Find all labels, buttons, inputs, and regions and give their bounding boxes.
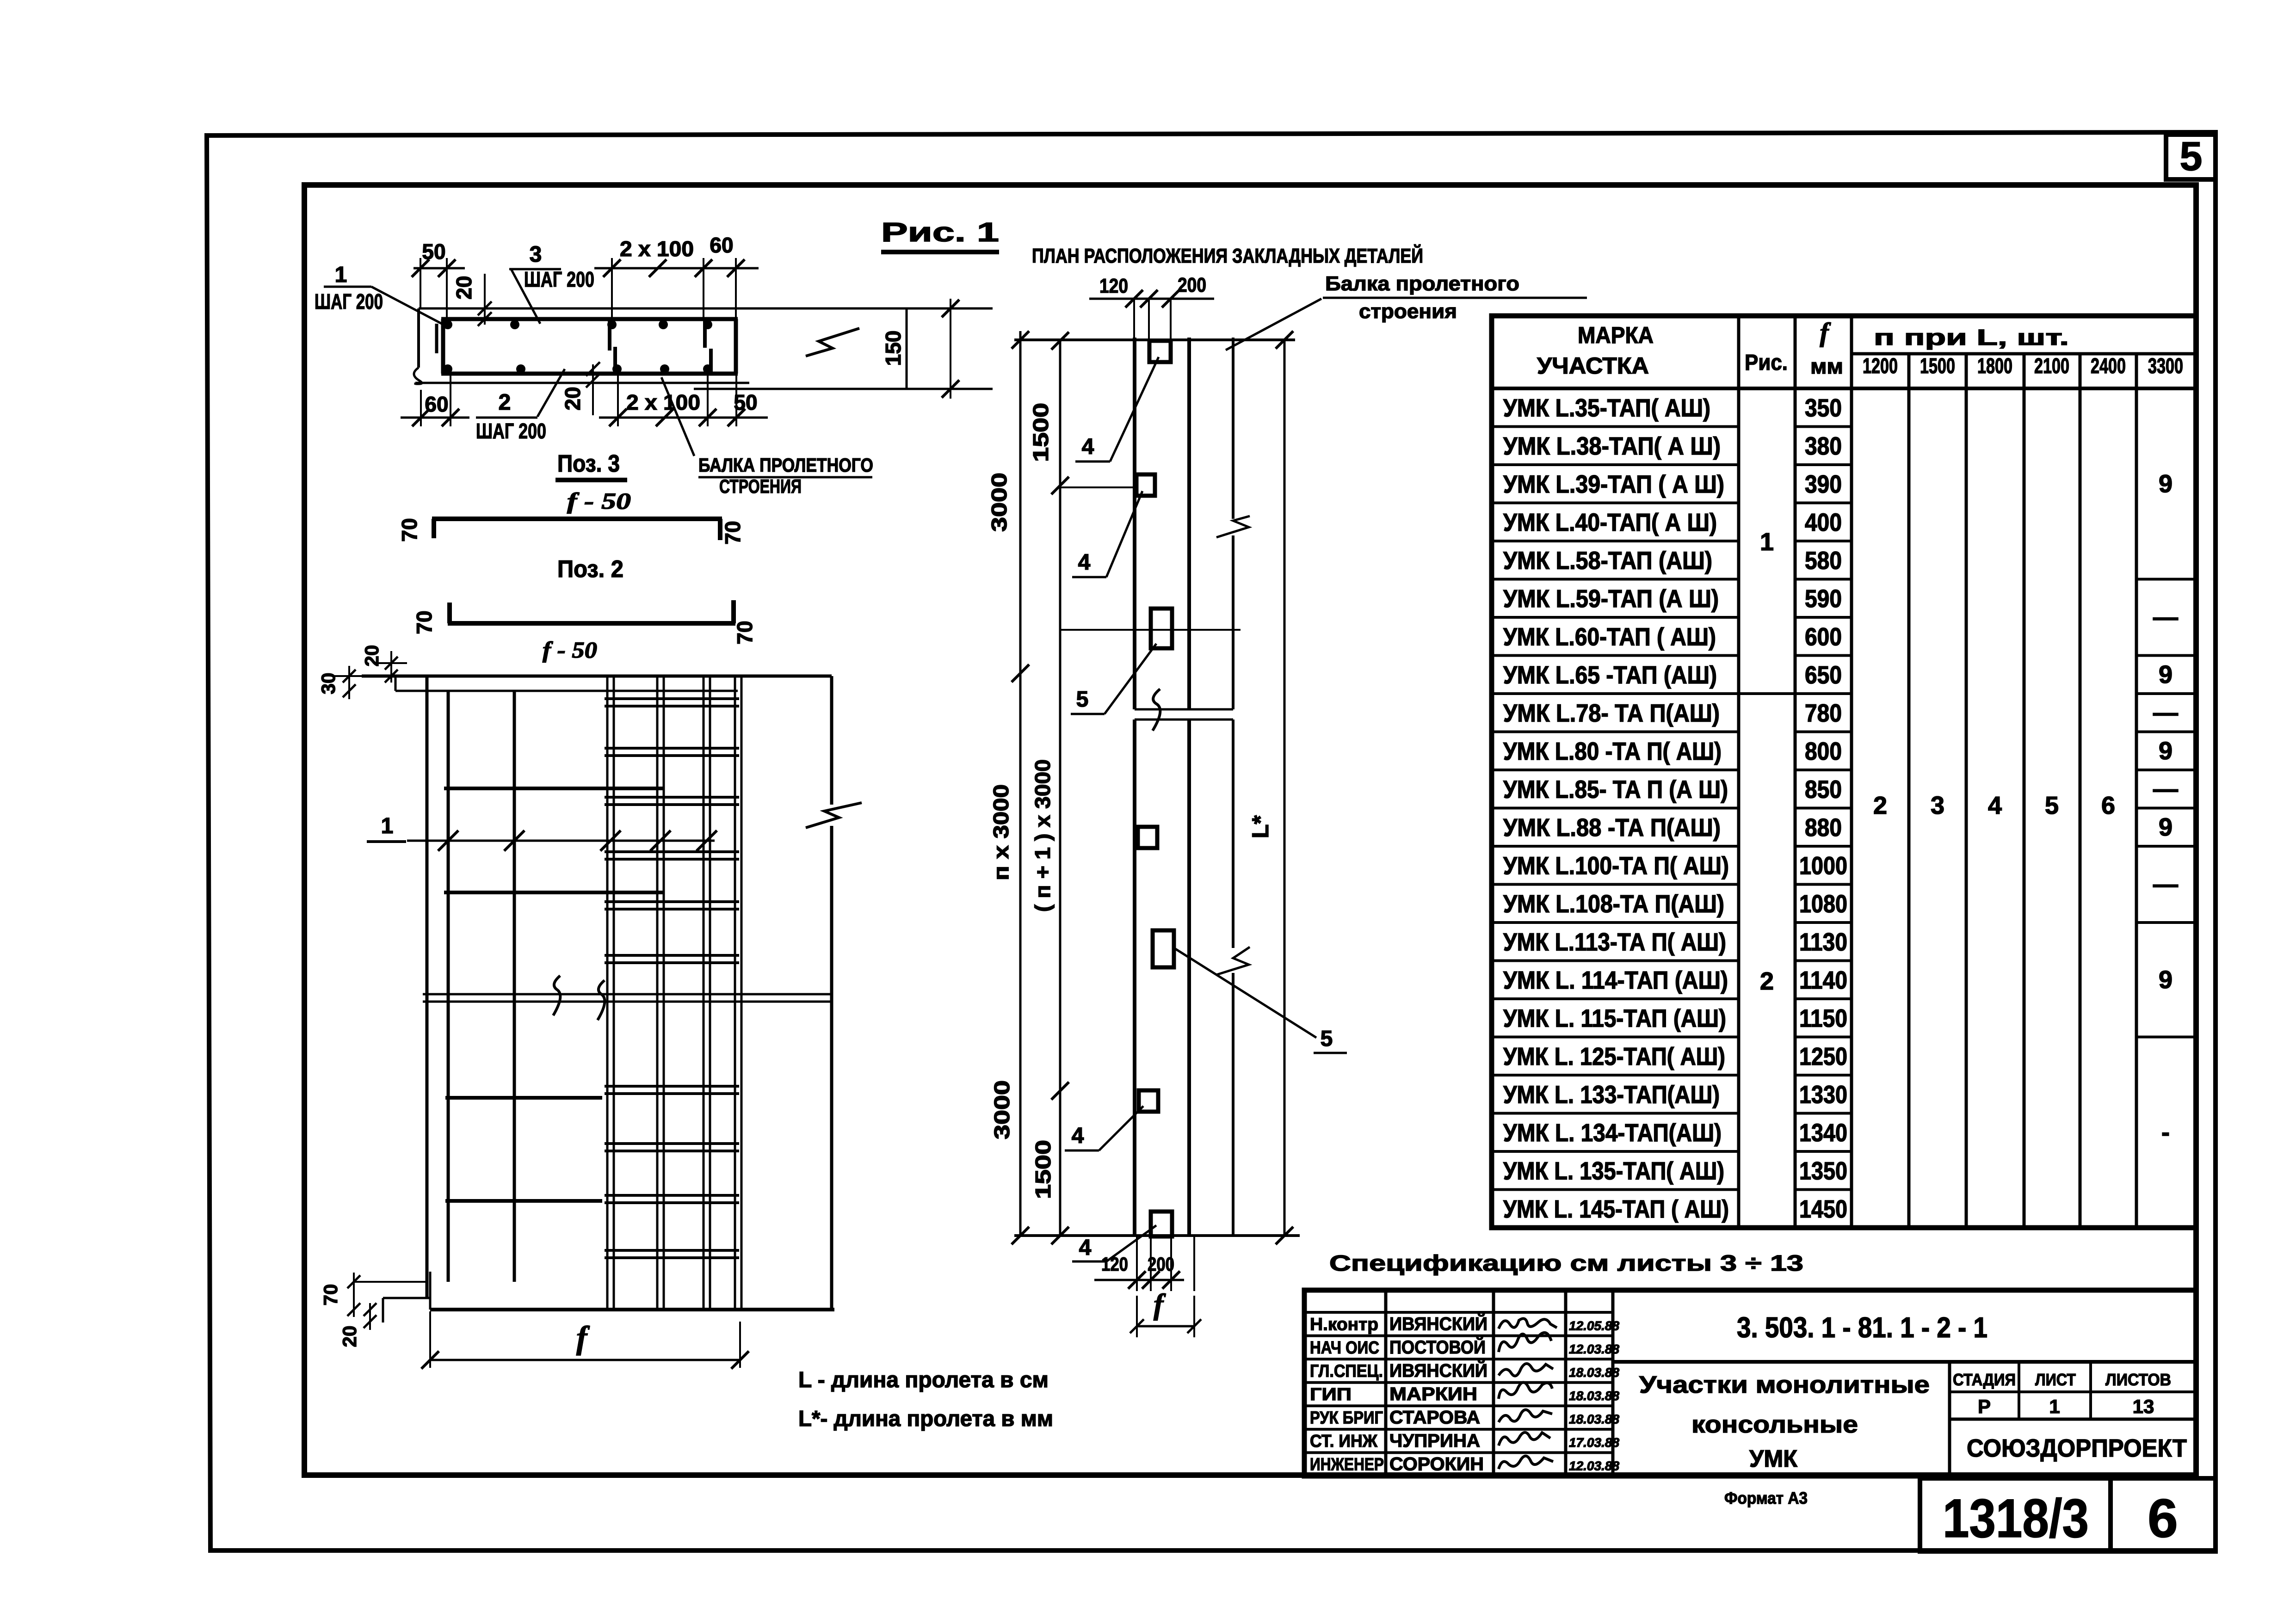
svg-text:Поз. 3: Поз. 3 <box>557 450 620 477</box>
svg-text:УМК L.108-ТА П(АШ): УМК L.108-ТА П(АШ) <box>1503 890 1724 918</box>
svg-text:4: 4 <box>1079 1236 1092 1260</box>
svg-text:380: 380 <box>1805 432 1842 460</box>
svg-text:2400: 2400 <box>2091 354 2126 378</box>
svg-text:УМК L. 134-ТАП(АШ): УМК L. 134-ТАП(АШ) <box>1503 1119 1722 1147</box>
stirrup cage top bar <box>441 317 738 321</box>
svg-text:ИВЯНСКИЙ: ИВЯНСКИЙ <box>1389 1313 1487 1334</box>
svg-text:2: 2 <box>1760 967 1774 995</box>
svg-text:150: 150 <box>881 331 905 366</box>
svg-text:5: 5 <box>1076 687 1089 712</box>
svg-text:20: 20 <box>339 1326 360 1347</box>
mesh long horizontal bars upper <box>444 787 664 790</box>
svg-text:4: 4 <box>1072 1124 1084 1148</box>
plan top edge <box>1014 338 1295 341</box>
mesh vertical bars dense group (doubled) <box>606 676 609 1310</box>
svg-text:50: 50 <box>734 390 757 414</box>
dim line B <box>1059 341 1062 1236</box>
title block signature rows <box>1304 1311 1613 1314</box>
svg-text:УМК L. 115-ТАП (АШ): УМК L. 115-ТАП (АШ) <box>1503 1004 1726 1032</box>
mesh right edge with break <box>830 676 833 805</box>
svg-text:4: 4 <box>1082 435 1094 459</box>
mesh vertical bars left group <box>426 676 429 1298</box>
20 dim left <box>390 651 392 683</box>
svg-text:п при L, шт.: п при L, шт. <box>1874 326 2069 350</box>
top 20 dim <box>484 274 486 325</box>
svg-text:5: 5 <box>2045 792 2059 819</box>
svg-text:ШАГ 200: ШАГ 200 <box>315 289 383 314</box>
svg-text:Р: Р <box>1978 1396 1991 1417</box>
svg-text:18.03.88: 18.03.88 <box>1569 1412 1619 1427</box>
svg-text:мм: мм <box>1810 354 1843 378</box>
f dim bottom plan <box>1136 1296 1138 1337</box>
svg-text:600: 600 <box>1805 623 1842 651</box>
svg-text:Рис. 1: Рис. 1 <box>881 217 999 247</box>
svg-text:1450: 1450 <box>1799 1195 1847 1223</box>
svg-text:60: 60 <box>425 392 448 416</box>
section break lines mid plan <box>1135 708 1233 711</box>
svg-text:-: - <box>2161 1119 2170 1146</box>
svg-text:200: 200 <box>1148 1253 1174 1275</box>
f dim bottom <box>429 1311 431 1368</box>
L* dim line <box>1284 340 1286 1236</box>
svg-text:ШАГ 200: ШАГ 200 <box>524 267 594 291</box>
svg-text:70: 70 <box>721 521 745 544</box>
svg-text:УМК L. 133-ТАП(АШ): УМК L. 133-ТАП(АШ) <box>1503 1081 1720 1108</box>
svg-text:18.03.88: 18.03.88 <box>1569 1389 1619 1403</box>
svg-text:строения: строения <box>1359 300 1457 323</box>
title name cell <box>1948 1362 1951 1476</box>
svg-text:20: 20 <box>361 645 383 667</box>
svg-text:1080: 1080 <box>1799 890 1847 918</box>
svg-text:880: 880 <box>1805 814 1842 842</box>
embedded plate 2 <box>1136 474 1155 496</box>
svg-text:3000: 3000 <box>990 1080 1014 1139</box>
Поз.2 bent bar <box>448 621 735 626</box>
svg-text:12.05.88: 12.05.88 <box>1569 1318 1619 1333</box>
svg-text:РУК БРИГ: РУК БРИГ <box>1310 1409 1383 1428</box>
svg-text:1500: 1500 <box>1029 403 1053 462</box>
svg-text:1: 1 <box>335 263 347 287</box>
svg-text:5: 5 <box>1321 1027 1333 1051</box>
beam break symbol <box>806 328 859 356</box>
beam left edge <box>1133 338 1136 709</box>
sheet number box 5 <box>2166 135 2216 179</box>
svg-text:9: 9 <box>2159 661 2173 689</box>
svg-text:—: — <box>2153 603 2178 631</box>
embedded plate 1 <box>1149 341 1171 362</box>
svg-text:СОРОКИН: СОРОКИН <box>1389 1454 1484 1475</box>
svg-text:УМК L.113-ТА П( АШ): УМК L.113-ТА П( АШ) <box>1503 928 1726 956</box>
svg-text:3: 3 <box>530 242 542 267</box>
svg-text:L*: L* <box>1247 815 1273 838</box>
svg-text:ГИП: ГИП <box>1310 1385 1352 1404</box>
rebar dots bottom row <box>443 364 452 374</box>
svg-text:МАРКА: МАРКА <box>1578 322 1654 348</box>
svg-text:НАЧ ОИС: НАЧ ОИС <box>1310 1338 1379 1358</box>
svg-text:СТ. ИНЖ: СТ. ИНЖ <box>1310 1432 1378 1451</box>
svg-text:12.03.88: 12.03.88 <box>1569 1342 1619 1356</box>
svg-text:—: — <box>2153 699 2178 726</box>
svg-text:850: 850 <box>1805 775 1842 803</box>
svg-text:350: 350 <box>1805 394 1842 422</box>
svg-text:5: 5 <box>2180 133 2203 179</box>
svg-text:2 x 100: 2 x 100 <box>620 237 694 261</box>
inner frame <box>304 185 2196 1475</box>
svg-text:4: 4 <box>1988 792 2002 819</box>
svg-text:БАЛКА ПРОЛЕТНОГО: БАЛКА ПРОЛЕТНОГО <box>698 454 873 476</box>
svg-text:Балка пролетного: Балка пролетного <box>1325 272 1519 295</box>
svg-text:12.03.88: 12.03.88 <box>1569 1459 1619 1473</box>
svg-text:70: 70 <box>733 621 757 644</box>
svg-text:1318/3: 1318/3 <box>1943 1488 2089 1549</box>
svg-text:СТАРОВА: СТАРОВА <box>1389 1408 1480 1428</box>
svg-text:1000: 1000 <box>1799 852 1847 880</box>
svg-text:ЛИСТОВ: ЛИСТОВ <box>2105 1370 2171 1389</box>
svg-text:1150: 1150 <box>1799 1004 1847 1032</box>
beam outer edge with breaks <box>1232 338 1234 519</box>
svg-text:13: 13 <box>2133 1396 2154 1417</box>
svg-text:п x 3000: п x 3000 <box>989 784 1013 880</box>
outer border <box>207 132 2216 1550</box>
svg-text:50: 50 <box>422 240 445 264</box>
mesh top edge <box>362 675 832 678</box>
svg-text:4: 4 <box>1078 550 1091 575</box>
svg-text:2 x 100: 2 x 100 <box>626 390 700 414</box>
svg-text:L - длина пролета в см: L - длина пролета в см <box>798 1368 1049 1392</box>
svg-text:Формат А3: Формат А3 <box>1724 1489 1808 1507</box>
svg-text:( п + 1 ) x 3000: ( п + 1 ) x 3000 <box>1031 759 1055 912</box>
svg-text:3: 3 <box>1931 792 1944 819</box>
cage left hook <box>435 324 438 353</box>
svg-text:УМК L.88 -ТА П(АШ): УМК L.88 -ТА П(АШ) <box>1503 814 1721 842</box>
mesh top-left step <box>395 676 397 691</box>
svg-text:консольные: консольные <box>1691 1411 1858 1438</box>
svg-text:Участки монолитные: Участки монолитные <box>1639 1372 1930 1398</box>
table header lines <box>1852 352 2196 356</box>
svg-text:1350: 1350 <box>1799 1157 1847 1185</box>
svg-text:3000: 3000 <box>987 473 1011 532</box>
svg-text:800: 800 <box>1805 738 1842 765</box>
svg-text:УМК L.85- ТА П (А Ш): УМК L.85- ТА П (А Ш) <box>1503 775 1728 803</box>
svg-text:f - 50: f - 50 <box>567 488 631 514</box>
svg-text:17.03.88: 17.03.88 <box>1569 1435 1619 1450</box>
doc number cell <box>1613 1360 2196 1364</box>
svg-text:Спецификацию см листы 3 ÷ 1: Спецификацию см листы 3 ÷ 13 <box>1329 1251 1803 1276</box>
svg-text:УМК L. 135-ТАП( АШ): УМК L. 135-ТАП( АШ) <box>1503 1157 1724 1185</box>
dim line A <box>1019 331 1022 1236</box>
beam cross-section slab outline <box>419 308 993 310</box>
svg-text:ИНЖЕНЕР: ИНЖЕНЕР <box>1310 1455 1384 1475</box>
svg-text:СТАДИЯ: СТАДИЯ <box>1953 1370 2016 1389</box>
svg-text:650: 650 <box>1805 661 1842 689</box>
embedded plate 4 <box>1138 827 1157 848</box>
embedded plate 3 <box>1151 609 1172 648</box>
svg-text:УМК L.39-ТАП ( А Ш): УМК L.39-ТАП ( А Ш) <box>1503 470 1724 498</box>
svg-text:УМК L.38-ТАП( А Ш): УМК L.38-ТАП( А Ш) <box>1503 432 1721 460</box>
mesh dense horizontal double bars lower <box>605 1085 739 1088</box>
beam flange edge <box>1187 338 1191 709</box>
svg-text:580: 580 <box>1805 547 1842 574</box>
cage mid hooks <box>608 319 611 351</box>
svg-text:2: 2 <box>1873 792 1887 819</box>
svg-text:УМК L. 114-ТАП (АШ): УМК L. 114-ТАП (АШ) <box>1503 966 1728 994</box>
svg-text:ПЛАН РАСПОЛОЖЕНИЯ ЗАКЛАДНЫХ: ПЛАН РАСПОЛОЖЕНИЯ ЗАКЛАДНЫХ ДЕТАЛЕЙ <box>1032 244 1423 267</box>
title block outer <box>1304 1290 2196 1476</box>
svg-text:УМК L.100-ТА П( АШ): УМК L.100-ТА П( АШ) <box>1503 852 1729 880</box>
svg-text:ИВЯНСКИЙ: ИВЯНСКИЙ <box>1389 1359 1487 1381</box>
svg-text:ШАГ 200: ШАГ 200 <box>476 419 546 443</box>
stirrup cage bottom bar <box>441 372 738 376</box>
svg-text:70: 70 <box>397 518 421 541</box>
svg-text:2: 2 <box>499 390 511 415</box>
svg-text:Рис.: Рис. <box>1745 351 1788 375</box>
svg-text:400: 400 <box>1805 509 1842 536</box>
cage left vertical <box>441 319 445 374</box>
svg-text:70: 70 <box>412 610 436 634</box>
svg-text:УЧАСТКА: УЧАСТКА <box>1537 353 1649 379</box>
svg-text:f - 50: f - 50 <box>543 637 597 663</box>
30 dim left <box>348 666 350 699</box>
stadia list cells <box>1950 1390 2196 1393</box>
svg-text:1200: 1200 <box>1863 354 1898 378</box>
embedded plate 7 <box>1151 1212 1172 1236</box>
svg-text:70: 70 <box>320 1284 341 1306</box>
bottom dimension line 60 / 2x100 / 50 <box>401 417 469 419</box>
svg-text:390: 390 <box>1805 470 1842 498</box>
leader callout 5 (long) <box>1174 948 1316 1038</box>
mesh long horizontal bars lower <box>445 1096 602 1100</box>
svg-text:ЧУПРИНА: ЧУПРИНА <box>1389 1431 1480 1451</box>
svg-text:9: 9 <box>2159 966 2173 994</box>
mesh bottom-left step <box>429 1272 432 1310</box>
page number box <box>2111 1478 2216 1551</box>
Поз.3 bent bar <box>432 517 722 521</box>
svg-text:1500: 1500 <box>1920 354 1955 378</box>
mesh bottom edge <box>430 1308 834 1311</box>
svg-text:2100: 2100 <box>2034 354 2069 378</box>
svg-text:18.03.88: 18.03.88 <box>1569 1365 1619 1379</box>
svg-text:Н.контр: Н.контр <box>1310 1315 1378 1334</box>
mesh dense horizontal double bars upper <box>605 697 739 700</box>
svg-text:УМК: УМК <box>1749 1446 1797 1472</box>
svg-text:УМК L.80 -ТА П( АШ): УМК L.80 -ТА П( АШ) <box>1503 738 1722 765</box>
svg-text:МАРКИН: МАРКИН <box>1389 1384 1477 1404</box>
svg-text:6: 6 <box>2101 792 2115 819</box>
table outer <box>1492 316 2196 1228</box>
svg-text:СТРОЕНИЯ: СТРОЕНИЯ <box>719 475 802 497</box>
signatures squiggles <box>1499 1318 1557 1329</box>
bar 1 callout line <box>407 840 715 842</box>
mesh top bar <box>395 690 738 692</box>
svg-text:780: 780 <box>1805 699 1842 727</box>
svg-text:УМК L. 145-ТАП ( АШ): УМК L. 145-ТАП ( АШ) <box>1503 1195 1729 1223</box>
svg-text:Поз. 2: Поз. 2 <box>557 556 623 583</box>
svg-text:120: 120 <box>1099 275 1128 297</box>
svg-text:20: 20 <box>561 387 585 410</box>
mesh mid break lines <box>423 993 832 996</box>
rebar dots top row <box>443 320 452 329</box>
svg-text:УМК L. 125-ТАП( АШ): УМК L. 125-ТАП( АШ) <box>1503 1043 1725 1070</box>
svg-text:1330: 1330 <box>1799 1081 1847 1108</box>
svg-text:УМК L.58-ТАП (АШ): УМК L.58-ТАП (АШ) <box>1503 547 1712 574</box>
cage right vertical <box>734 319 738 374</box>
svg-text:9: 9 <box>2159 737 2173 765</box>
svg-text:СОЮЗДОРПРОЕКТ: СОЮЗДОРПРОЕКТ <box>1967 1434 2187 1462</box>
table column lines <box>1737 316 1741 1228</box>
svg-text:ЛИСТ: ЛИСТ <box>2035 1370 2076 1389</box>
embedded plate 6 <box>1139 1090 1158 1112</box>
70 dim bottom left <box>353 1273 355 1317</box>
svg-text:3. 503. 1 - 81. 1 - 2 - 1: 3. 503. 1 - 81. 1 - 2 - 1 <box>1737 1312 1987 1344</box>
svg-text:УМК L.40-ТАП( А Ш): УМК L.40-ТАП( А Ш) <box>1503 509 1717 536</box>
20 dim bottom left <box>369 1303 371 1330</box>
svg-text:1: 1 <box>2049 1396 2060 1417</box>
svg-text:9: 9 <box>2159 470 2173 498</box>
120 200 bottom dim <box>1136 1236 1138 1291</box>
svg-text:УМК L.59-ТАП (А Ш): УМК L.59-ТАП (А Ш) <box>1503 585 1719 613</box>
svg-text:60: 60 <box>710 233 733 257</box>
top dimension line 50 / 2x100 / 60 <box>414 267 465 270</box>
archive number box <box>1920 1478 2111 1551</box>
svg-text:L*- длина пролета в мм: L*- длина пролета в мм <box>798 1407 1053 1431</box>
title block columns <box>1384 1290 1388 1476</box>
svg-text:20: 20 <box>452 276 476 299</box>
table row lines <box>1492 425 1739 428</box>
svg-text:1250: 1250 <box>1799 1043 1847 1070</box>
svg-text:УМК L.35-ТАП( АШ): УМК L.35-ТАП( АШ) <box>1503 394 1710 422</box>
svg-text:1500: 1500 <box>1031 1140 1055 1199</box>
svg-text:200: 200 <box>1178 274 1206 296</box>
150 dim <box>950 299 951 399</box>
svg-text:1340: 1340 <box>1799 1119 1847 1147</box>
svg-text:1140: 1140 <box>1799 966 1847 994</box>
svg-text:УМК L.65 -ТАП (АШ): УМК L.65 -ТАП (АШ) <box>1503 661 1717 689</box>
svg-text:ПОСТОВОЙ: ПОСТОВОЙ <box>1389 1336 1486 1358</box>
svg-text:УМК L.78- ТА П(АШ): УМК L.78- ТА П(АШ) <box>1503 699 1720 727</box>
svg-text:1800: 1800 <box>1977 354 2012 378</box>
embedded plate 5 <box>1153 930 1174 967</box>
svg-text:590: 590 <box>1805 585 1842 613</box>
svg-text:120: 120 <box>1101 1253 1128 1275</box>
svg-text:—: — <box>2153 871 2178 898</box>
svg-text:—: — <box>2153 775 2178 803</box>
svg-text:9: 9 <box>2159 813 2173 841</box>
plan bottom edge <box>1014 1234 1300 1237</box>
svg-text:ГЛ.СПЕЦ.: ГЛ.СПЕЦ. <box>1310 1361 1383 1381</box>
bottom 20 dim <box>592 364 594 415</box>
label балка пролетного строения (section) <box>661 377 694 456</box>
svg-text:1: 1 <box>1760 528 1774 556</box>
svg-text:УМК L.60-ТАП ( АШ): УМК L.60-ТАП ( АШ) <box>1503 623 1716 651</box>
svg-text:1: 1 <box>381 814 394 838</box>
svg-text:6: 6 <box>2148 1488 2178 1549</box>
svg-text:3300: 3300 <box>2148 354 2183 378</box>
svg-text:1130: 1130 <box>1799 928 1847 956</box>
